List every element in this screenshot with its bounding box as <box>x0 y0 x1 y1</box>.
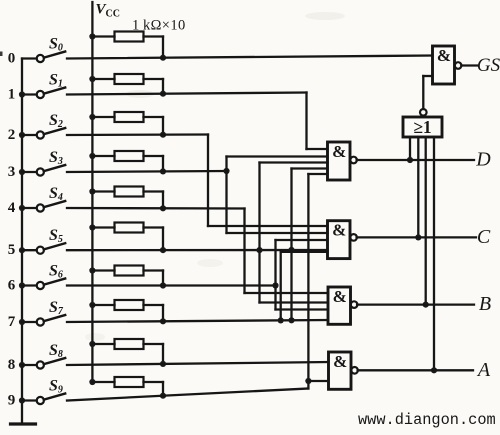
svg-text:&: & <box>333 287 347 306</box>
wire: line 6 upper branch to gate U3 input 3 <box>276 239 328 241</box>
wire: line 7 riser to gate U3 input 4 <box>281 252 328 321</box>
switch S9 <box>22 378 65 405</box>
resistor R4 (pull-up for line 4) <box>89 187 166 212</box>
junctions: bus taps rows 1-9 <box>19 91 25 403</box>
wire: line 6 branch vertical <box>274 240 276 310</box>
wire: line 6 horizontal <box>67 282 279 288</box>
wire: line 9 horizontal <box>67 389 308 401</box>
svg-text:9: 9 <box>8 392 16 408</box>
wire: line 6 lower branch to gate U4 input 3 <box>276 308 329 310</box>
switch S7 <box>22 299 65 326</box>
svg-text:&: & <box>332 221 346 240</box>
value label 1kΩ×10 <box>132 18 186 34</box>
svg-text:B: B <box>479 293 491 315</box>
wire: U6 output to U1 input 2 <box>423 76 432 109</box>
resistor R2 (pull-up for line 2) <box>89 112 166 138</box>
NAND gate U1 (output GS) <box>433 46 462 84</box>
resistor R0 (pull-up for line 0) <box>89 32 166 61</box>
wire: U6 input from output C <box>415 137 421 240</box>
svg-text:5: 5 <box>8 242 16 258</box>
node C (output label) <box>477 226 491 248</box>
wire: line 5 horizontal into gate U3 <box>67 247 328 253</box>
node 8 (input line label) <box>8 357 16 373</box>
node 9 (input line label) <box>8 392 16 408</box>
node A (output label) <box>476 359 491 381</box>
svg-text:3: 3 <box>8 164 16 180</box>
wire: line 5 branch vertical <box>258 163 260 303</box>
resistor R8 (pull-up for line 8) <box>89 339 166 367</box>
wire: line 9 branch to gate U5 input 2 <box>305 378 328 384</box>
ground <box>11 422 36 425</box>
wire: U6 input from output D <box>407 137 413 163</box>
switch S5 <box>22 227 65 254</box>
wire: input common bus (left vertical) <box>21 59 23 423</box>
svg-text:D: D <box>475 149 491 171</box>
svg-text:2: 2 <box>8 127 16 143</box>
wire: output line D <box>357 159 474 161</box>
wire: line 8 horizontal into gate U5 <box>67 362 329 365</box>
wire: line 9 riser to gate U2 input 5 <box>308 174 327 389</box>
wire: output line GS <box>461 64 477 66</box>
resistor R1 (pull-up for line 1) <box>89 74 166 97</box>
svg-text:0: 0 <box>8 50 16 66</box>
wire: line 4 drop to gate U4 input 1 <box>245 209 329 294</box>
wire: line 5 lower branch to gate U4 input 2 <box>260 301 329 303</box>
wire: line 7 horizontal into gate U4 <box>67 317 328 323</box>
svg-text:GS: GS <box>477 55 500 76</box>
svg-text:&: & <box>437 46 451 65</box>
svg-text:&: & <box>332 142 346 161</box>
node 5 (input line label) <box>8 242 16 258</box>
switch S3 <box>22 149 65 176</box>
svg-text:1: 1 <box>8 86 16 102</box>
wire: line 4 horizontal <box>67 207 245 210</box>
wire: output line B <box>357 303 474 305</box>
NAND gate U3 (output C) <box>328 221 357 259</box>
switch S6 <box>22 263 65 290</box>
wire: line 1 horizontal <box>67 93 307 95</box>
NAND gate U5 (output A) <box>329 352 358 389</box>
wire: line 5 upper branch to gate U2 input 3 <box>260 161 328 163</box>
svg-text:www.diangon.com: www.diangon.com <box>358 411 496 429</box>
wire: line 3 horizontal <box>67 168 230 174</box>
wire: line 3 branch vertical <box>225 157 227 234</box>
power rail Vcc <box>92 2 120 383</box>
svg-text:≥1: ≥1 <box>413 117 431 137</box>
resistor R3 (pull-up for line 3) <box>89 151 166 174</box>
NAND gate U2 (output D) <box>328 142 357 180</box>
wire: line 1 drop to gate U2 input 1 <box>307 93 328 150</box>
wire: line 2 horizontal <box>67 133 208 136</box>
wire: line 3 lower branch to gate U3 input 2 <box>227 232 328 234</box>
resistor R7 (pull-up for line 7) <box>89 300 166 324</box>
svg-text:&: & <box>333 352 347 371</box>
svg-text:C: C <box>477 226 491 248</box>
node B (output label) <box>479 293 491 315</box>
node GS (output label) <box>477 55 500 76</box>
node 4 (input line label) <box>8 200 16 216</box>
svg-text:6: 6 <box>8 277 16 293</box>
OR gate U6 (>=1) with inverted output <box>403 109 442 137</box>
switch S8 <box>22 342 65 369</box>
wire: U6 input from output A <box>431 137 437 373</box>
watermark text <box>358 411 496 429</box>
wire: line 7 riser to gate U2 input 4 <box>292 169 328 321</box>
wire: line 2 drop to gate U3 input 1 <box>208 135 328 227</box>
node 7 (input line label) <box>8 314 16 330</box>
scan edge mark <box>0 52 3 57</box>
wire: U6 input from output B <box>423 137 429 308</box>
switch S2 <box>22 112 65 139</box>
switch S4 <box>22 185 65 212</box>
wire: line 0 from S0 to gate U1 <box>67 56 433 59</box>
wire: line 3 upper branch to gate U2 input 2 <box>227 155 328 157</box>
switch S0 <box>22 36 65 63</box>
resistor R5 (pull-up for line 5) <box>89 223 166 254</box>
wire: output line A <box>358 369 473 371</box>
switch S1 <box>22 72 65 99</box>
svg-text:A: A <box>476 359 491 381</box>
node 3 (input line label) <box>8 164 16 180</box>
node D (output label) <box>475 149 491 171</box>
node 0 (input line label) <box>8 50 16 66</box>
wire: output line C <box>357 236 476 238</box>
resistor R6 (pull-up for line 6) <box>89 266 166 289</box>
svg-text:4: 4 <box>8 200 16 216</box>
svg-text:7: 7 <box>8 314 16 330</box>
svg-text:8: 8 <box>8 357 16 373</box>
node 6 (input line label) <box>8 277 16 293</box>
NAND gate U4 (output B) <box>328 287 357 324</box>
node 2 (input line label) <box>8 127 16 143</box>
resistor R9 (pull-up for line 9) <box>89 377 166 399</box>
node 1 (input line label) <box>8 86 16 102</box>
